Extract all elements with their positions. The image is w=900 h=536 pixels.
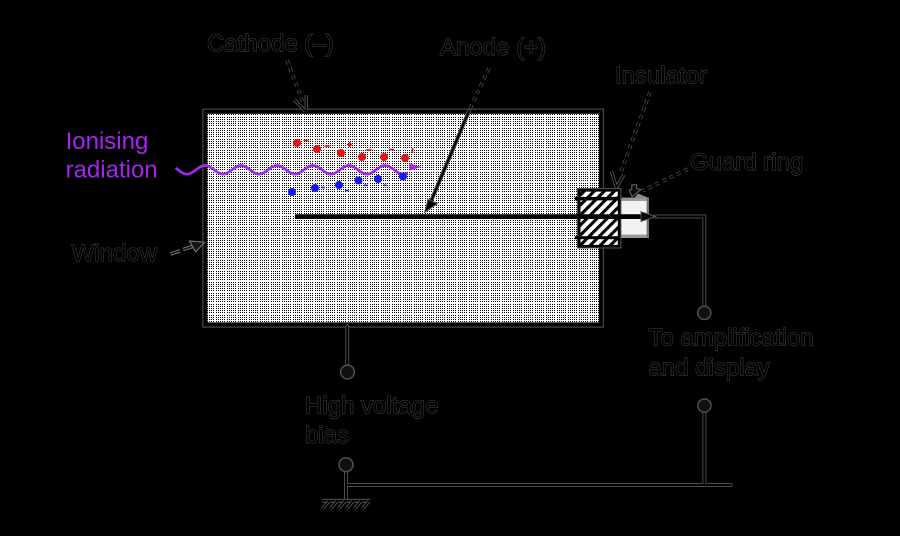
svg-text:Insulator: Insulator: [615, 63, 707, 90]
anode output arrowhead: [641, 212, 656, 222]
terminal dot (chamber HV): [341, 365, 355, 379]
window pointer: [171, 247, 193, 254]
insulator pointer arrowhead (open): [612, 172, 625, 188]
window arrowhead: [190, 241, 205, 252]
ionising radiation squiggle: [176, 166, 408, 175]
guard ring pointer arrowhead (filled): [629, 185, 641, 197]
svg-text:Ionising: Ionising: [66, 128, 149, 155]
anode rod: [295, 214, 642, 219]
electrons (blue): [288, 173, 407, 197]
red ion trail marks: [303, 141, 412, 154]
svg-text:Anode (+): Anode (+): [440, 34, 546, 61]
terminal dot (guard output upper): [698, 306, 711, 319]
svg-text:radiation: radiation: [66, 157, 158, 184]
terminal dot (amplifier lower): [698, 399, 711, 412]
ground symbol bar: [322, 499, 370, 503]
anode pointer solid segment: [429, 111, 469, 206]
svg-text:To amplification: To amplification: [648, 325, 813, 352]
svg-text:and display: and display: [648, 355, 769, 382]
guard electrode bar bottom: [575, 236, 620, 239]
svg-text:Window: Window: [72, 240, 158, 267]
ground hatch ticks: [323, 501, 370, 508]
cathode pointer arrowhead (open): [294, 95, 306, 111]
wires core: [346, 217, 731, 501]
dashed pointer arrows halo: [287, 60, 688, 191]
guard electrode bar top: [575, 197, 620, 201]
chamber body with dotted gas fill: [206, 112, 601, 325]
blue trail marks: [321, 185, 387, 190]
anode pointer arrowhead: [425, 200, 438, 213]
wires halo: [346, 217, 731, 501]
positive ions (red): [293, 139, 409, 162]
svg-text:High voltage: High voltage: [305, 393, 438, 420]
svg-text:bias: bias: [305, 422, 349, 449]
insulator outer halo: [579, 190, 619, 246]
chamber (cathode) outer halo: [206, 112, 601, 325]
terminal dot (bias to ground): [339, 458, 353, 472]
svg-text:Cathode (–): Cathode (–): [207, 31, 334, 58]
guard ring block: [620, 198, 649, 238]
insulator hatched block: [579, 190, 619, 246]
radiation arrowhead: [410, 163, 422, 170]
svg-text:Guard ring: Guard ring: [690, 149, 803, 176]
dashed pointer arrows core: [287, 60, 688, 191]
